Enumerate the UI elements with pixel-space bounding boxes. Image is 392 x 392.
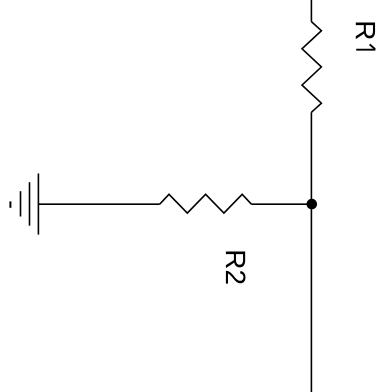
label R1: [356, 23, 376, 50]
wire bottom vertical: [310, 112, 312, 392]
wire top vertical: [310, 0, 312, 22]
wire R2 to junction: [251, 203, 311, 205]
node junction dot: [307, 199, 318, 210]
resistor R1: [302, 22, 321, 113]
label R2: [226, 252, 246, 284]
wire ground to R2: [38, 203, 159, 205]
resistor R2: [160, 194, 252, 213]
ground: [10, 174, 38, 235]
